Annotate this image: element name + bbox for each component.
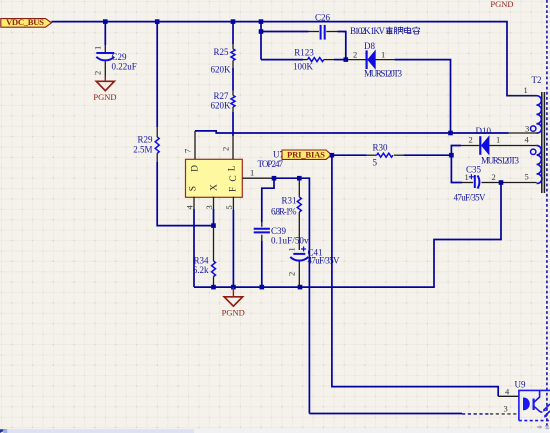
svg-text:5: 5 [224, 205, 234, 209]
svg-text:1: 1 [465, 172, 469, 182]
svg-text:2: 2 [93, 71, 103, 75]
scrollbar strip [0, 429, 550, 433]
svg-text:620K: 620K [211, 65, 232, 75]
svg-text:PRI_BIAS: PRI_BIAS [287, 149, 325, 159]
ground PGND under U7 [222, 287, 245, 317]
svg-text:6.2k: 6.2k [193, 265, 209, 275]
wire R123 row left [261, 59, 303, 61]
svg-text:5: 5 [373, 158, 378, 168]
winding 2 with phase dot [531, 149, 536, 154]
svg-text:2.5M: 2.5M [133, 145, 152, 155]
svg-text:L: L [228, 165, 238, 171]
node junction on bus at R25 [231, 19, 236, 24]
wire main VDC bus [52, 22, 537, 96]
capacitor C35 [454, 165, 496, 203]
wire F column [232, 210, 234, 287]
pin 3 of U7 (X) [204, 197, 214, 210]
node junction on drain line [448, 131, 453, 136]
svg-text:2: 2 [221, 147, 231, 151]
diode D10 [461, 126, 537, 166]
wire PRI_BIAS to R30 [332, 154, 367, 156]
svg-text:D10: D10 [476, 126, 492, 136]
op-amp U7 TOP247 body [186, 159, 243, 197]
node junction on bus at C26 loop [259, 19, 264, 24]
svg-text:R31: R31 [281, 196, 296, 206]
wire R29 to X pin [157, 162, 213, 226]
node junction rail F/PGND [231, 285, 236, 290]
svg-text:F: F [228, 187, 238, 192]
svg-text:6.8R-1%: 6.8R-1% [271, 207, 297, 217]
svg-text:4: 4 [184, 205, 194, 210]
pin 4 of U9 [498, 387, 519, 397]
svg-text:R29: R29 [137, 135, 153, 145]
svg-text:R27: R27 [213, 91, 229, 101]
label Chinese film cap note [350, 26, 420, 36]
wire D8 to drain line [395, 60, 451, 133]
svg-text:1: 1 [524, 85, 528, 95]
svg-text:1: 1 [250, 168, 254, 178]
pin 1 line [507, 95, 537, 97]
svg-text:3: 3 [504, 404, 508, 414]
wire C29 drop [104, 22, 106, 45]
node junction rail C39 [260, 285, 265, 290]
svg-text:S: S [189, 186, 199, 191]
transformer T2 [507, 75, 544, 193]
svg-text:2: 2 [287, 272, 297, 276]
svg-text:47uF/35V: 47uF/35V [454, 193, 487, 203]
svg-text:R25: R25 [213, 47, 229, 57]
ground PGND under C29 [93, 77, 116, 103]
node junction C26 branch [259, 29, 264, 34]
svg-text:U9: U9 [515, 380, 526, 390]
wire C39 to rail [261, 241, 263, 287]
svg-text:47uF/35V: 47uF/35V [308, 256, 341, 266]
wire C26 right to R123 junction [338, 32, 346, 60]
svg-text:1: 1 [496, 135, 500, 145]
node junction rail R34 [211, 285, 216, 290]
svg-text:PGND: PGND [490, 0, 513, 9]
pin 7 of U7 (D) [183, 131, 196, 159]
resistor R30 [367, 143, 404, 168]
capacitor C29 [93, 45, 137, 77]
node junction C35/T2pin5/rail [499, 180, 504, 185]
svg-text:R30: R30 [373, 143, 389, 153]
wire X to R34 [213, 209, 215, 226]
resistor R34 [193, 226, 216, 288]
node junction R31 tap [297, 176, 302, 181]
wire source rail [194, 183, 501, 288]
wire C26 branch left [261, 31, 309, 33]
optocoupler U9 [515, 380, 550, 421]
node junction R30/bracket [449, 153, 454, 158]
svg-text:D: D [190, 165, 200, 172]
node junction R123/C26/D8 [344, 57, 349, 62]
svg-text:7: 7 [183, 149, 193, 153]
sheet border dashed line [546, 0, 548, 433]
wire R30 to D10 bracket [404, 154, 452, 156]
node junction rail C41 [298, 285, 303, 290]
wire R25 column top [232, 22, 234, 44]
svg-text:PGND: PGND [93, 92, 116, 102]
wire R25 to R27 [232, 68, 234, 91]
node junction on bus at R29 [155, 19, 160, 24]
pin 4 of U7 (S) [184, 197, 194, 210]
capacitor C41 [287, 247, 341, 288]
wire control node down to U9 pin3 [309, 413, 462, 415]
svg-text:2: 2 [492, 172, 496, 182]
svg-text:C26: C26 [315, 13, 331, 23]
winding 1 [537, 96, 542, 133]
resistor R31 [271, 178, 301, 250]
wire C39 branch [262, 178, 274, 222]
wire D10-C35 bracket [451, 146, 462, 183]
svg-text:PGND: PGND [222, 308, 245, 318]
wire R123 to D8 junction [334, 59, 346, 61]
wire control node from pin1 [274, 178, 309, 413]
capacitor C39 [254, 222, 309, 246]
svg-text:100K: 100K [293, 62, 314, 72]
resistor R25 [211, 44, 236, 75]
svg-text:1: 1 [287, 247, 297, 251]
svg-text:3: 3 [204, 205, 214, 209]
label watermark bottom right [537, 425, 549, 431]
node junction C39 tap [272, 176, 277, 181]
node junction on bus at C29 [103, 19, 108, 24]
wire PRI_BIAS down to U9 pin4 [332, 155, 498, 396]
svg-text:MURS120T3: MURS120T3 [364, 69, 403, 79]
svg-text:R123: R123 [294, 48, 314, 58]
svg-text:C29: C29 [112, 52, 128, 62]
svg-text:C: C [229, 175, 239, 181]
pin 3 line with phase dot [509, 132, 539, 134]
resistor R29 [133, 127, 159, 162]
svg-text:D8: D8 [364, 41, 375, 51]
wire dashed segment to U9 pin3 [462, 413, 490, 415]
wire drain from pin7 to T2 pin3 [195, 131, 509, 133]
svg-text:C39: C39 [271, 226, 287, 236]
wire S column [193, 209, 195, 287]
svg-text:5: 5 [525, 172, 529, 182]
svg-text:620K: 620K [211, 101, 232, 111]
wire R29 column top [156, 22, 158, 127]
pin 1 of U7 (C) [243, 168, 275, 179]
svg-text:R34: R34 [193, 256, 209, 266]
svg-text:T2: T2 [532, 75, 542, 85]
node junction PRI_BIAS [330, 153, 335, 158]
svg-text:B102K 1KV: B102K 1KV [350, 26, 386, 36]
power port PRI_BIAS [282, 149, 332, 159]
svg-text:MURS120T3: MURS120T3 [481, 156, 520, 166]
wire C35 to T2 pin5 [494, 182, 537, 184]
svg-text:1: 1 [381, 50, 385, 60]
resistor R123 [293, 48, 334, 72]
diode D8 [346, 41, 403, 79]
svg-text:3: 3 [525, 124, 529, 134]
pin 2 of U7 (L) [221, 136, 234, 159]
power port VDC_BUS [1, 17, 52, 27]
wire C26 loop left vertical [260, 22, 262, 60]
pin 5 of U7 (F) [224, 197, 234, 210]
svg-text:1: 1 [93, 46, 103, 50]
svg-text:TOP247: TOP247 [258, 159, 284, 169]
capacitor C26 [309, 13, 338, 40]
svg-text:0.22uF: 0.22uF [112, 62, 137, 72]
wire R27 to U7 pin2 [232, 112, 234, 136]
resistor R27 [211, 91, 236, 113]
svg-text:2: 2 [353, 50, 357, 60]
svg-text:X: X [210, 184, 220, 191]
svg-text:VDC_BUS: VDC_BUS [6, 17, 44, 27]
svg-text:0.1uF/50v: 0.1uF/50v [271, 236, 309, 246]
core lines [541, 92, 543, 193]
svg-text:2: 2 [469, 135, 473, 145]
node junction R29/X [211, 223, 216, 228]
